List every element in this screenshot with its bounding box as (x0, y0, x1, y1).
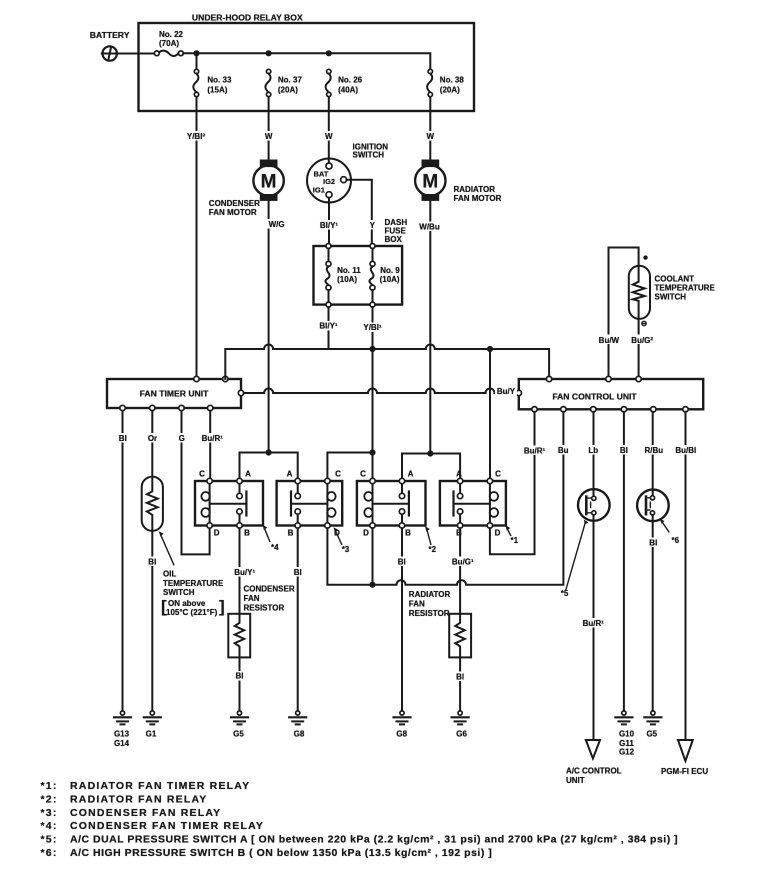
svg-text:(10A): (10A) (380, 275, 400, 284)
wire seg A*2 to A*1 with W/Bu tap (402, 454, 460, 482)
svg-text:W/Bu: W/Bu (419, 223, 440, 232)
svg-text:*6:: *6: (41, 847, 58, 859)
svg-text:A: A (456, 470, 462, 479)
arrow to A/C control unit (566, 740, 622, 785)
wire seg C*3 to Y/Bl1 tap (327, 453, 372, 482)
svg-text:UNIT: UNIT (566, 776, 585, 785)
fan timer unit (107, 376, 244, 410)
svg-text:SWITCH: SWITCH (655, 293, 687, 302)
svg-text:G5: G5 (233, 730, 244, 739)
ignition switch (307, 143, 388, 203)
svg-text:CONDENSER FAN RELAY: CONDENSER FAN RELAY (70, 807, 221, 819)
svg-text:G14: G14 (114, 739, 130, 748)
relay *3 condenser fan relay (277, 470, 350, 555)
svg-text:UNDER-HOOD RELAY BOX: UNDER-HOOD RELAY BOX (192, 13, 303, 23)
wire Bu/Bl fan control unit to PGM-FI ECU (673, 412, 699, 740)
svg-text:(15A): (15A) (207, 86, 227, 95)
wire Bl fan control unit to ground G10 G11 G12 (618, 412, 631, 711)
svg-text:D: D (214, 528, 220, 537)
svg-text:W: W (325, 132, 333, 141)
ground G8 (relay *2) (394, 711, 411, 739)
svg-text:G10: G10 (619, 730, 635, 739)
dash fuse box (314, 218, 408, 305)
wire seg A*4 to A*3 with W/G tap (240, 453, 298, 482)
wire Bu/R1 switch *5 to A/C control unit (580, 515, 607, 740)
ground G1 (144, 711, 161, 739)
wire Bl/Y1 fuse11 to bus1 (315, 307, 342, 349)
svg-text:ON above: ON above (168, 599, 206, 608)
wire Bl condenser resistor to ground G5 (234, 657, 246, 711)
svg-text:*5: *5 (561, 589, 569, 598)
fuse No. 9 (10A) (369, 244, 400, 308)
svg-text:Bl: Bl (649, 538, 657, 547)
wire Bl relay *2 B to ground G8 (396, 528, 409, 711)
svg-text:G12: G12 (619, 748, 635, 757)
svg-text:Bu/Y¹: Bu/Y¹ (234, 568, 255, 577)
svg-text:Bu/Y: Bu/Y (497, 387, 516, 396)
svg-text:RADIATOR FAN RELAY: RADIATOR FAN RELAY (70, 793, 208, 805)
svg-text:No. 37: No. 37 (278, 76, 303, 85)
svg-text:G8: G8 (396, 730, 407, 739)
svg-text:SWITCH: SWITCH (353, 151, 385, 160)
svg-text:A: A (408, 470, 414, 479)
svg-text:RADIATOR FAN TIMER RELAY: RADIATOR FAN TIMER RELAY (70, 780, 250, 792)
svg-text:Bl/Y¹: Bl/Y¹ (319, 322, 338, 331)
fuse No. 26 (40A) (326, 69, 363, 96)
svg-text:RESISTOR: RESISTOR (244, 604, 285, 613)
svg-text:*6: *6 (672, 536, 680, 545)
svg-text:C: C (360, 470, 366, 479)
svg-text:Bu: Bu (558, 446, 569, 455)
ground G10 G11 G12 (615, 711, 634, 757)
ground G13 G14 (114, 711, 131, 748)
svg-text:FAN TIMER UNIT: FAN TIMER UNIT (140, 389, 209, 399)
svg-text:Bl/Y¹: Bl/Y¹ (320, 221, 339, 230)
wire battery to fuse 22 (117, 53, 154, 55)
wire W fuse26 to ignition switch (323, 97, 334, 163)
svg-text:TEMPERATURE: TEMPERATURE (163, 579, 224, 588)
svg-text:FAN MOTOR: FAN MOTOR (454, 194, 502, 203)
svg-text:G6: G6 (456, 730, 467, 739)
wire W/G condenser motor to relay A row (257, 201, 285, 456)
svg-text:(20A): (20A) (440, 86, 460, 95)
svg-text:No. 26: No. 26 (338, 76, 363, 85)
svg-text:[: [ (161, 597, 167, 616)
oil temperature switch (142, 477, 225, 617)
svg-text:IG1: IG1 (313, 186, 325, 195)
ground G5 (condenser resistor) (231, 711, 248, 739)
relay *4 condenser fan timer relay (195, 470, 279, 553)
wire Bu coil feed: relay *3 D and *2 D to fan control unit Bu (327, 412, 570, 588)
svg-text:FAN CONTROL UNIT: FAN CONTROL UNIT (552, 392, 637, 402)
svg-text:No. 22: No. 22 (159, 30, 184, 39)
A/C dual pressure switch A *5 (561, 412, 610, 598)
svg-text:*3:: *3: (41, 807, 58, 819)
svg-text:FAN MOTOR: FAN MOTOR (209, 208, 257, 217)
svg-text:FAN: FAN (409, 600, 425, 609)
wire W fuse38 to radiator fan motor (425, 97, 436, 160)
bus2 wire Bu/Y fan timer unit to fan control unit (244, 387, 517, 397)
svg-text:Bu/R¹: Bu/R¹ (524, 446, 546, 455)
wire relay *2 D drop (372, 528, 374, 585)
svg-text:(10A): (10A) (337, 275, 357, 284)
svg-text:M: M (422, 171, 438, 192)
radiator fan motor (415, 160, 501, 204)
svg-text:Bl: Bl (119, 434, 127, 443)
svg-text:C: C (199, 470, 205, 479)
svg-text:A/C CONTROL: A/C CONTROL (566, 767, 622, 776)
svg-text:TEMPERATURE: TEMPERATURE (655, 284, 716, 293)
svg-text:]: ] (219, 597, 225, 616)
svg-text:Bu/G²: Bu/G² (631, 336, 653, 345)
svg-text:C: C (335, 470, 341, 479)
wire Bu/Y1 relay *4 B to condenser fan resistor (231, 528, 259, 614)
svg-text:PGM-FI ECU: PGM-FI ECU (661, 767, 708, 776)
svg-text:Bu/R¹: Bu/R¹ (583, 619, 605, 628)
condenser fan motor (209, 160, 284, 218)
svg-text:A/C DUAL PRESSURE SWITCH A [ O: A/C DUAL PRESSURE SWITCH A [ ON between … (70, 834, 678, 846)
svg-text:*3: *3 (342, 545, 350, 554)
svg-text:M: M (261, 171, 277, 192)
svg-text:B: B (405, 528, 411, 537)
svg-text:Bu/R¹: Bu/R¹ (202, 434, 224, 443)
ground G6 (radiator resistor) (452, 711, 469, 739)
svg-text:Bl: Bl (456, 673, 464, 682)
svg-text:*5:: *5: (41, 834, 58, 846)
svg-text:No. 38: No. 38 (440, 76, 465, 85)
svg-text:CONDENSER: CONDENSER (244, 585, 295, 594)
svg-text:RESISTOR: RESISTOR (409, 609, 450, 618)
svg-text:(40A): (40A) (338, 86, 358, 95)
wire Bu/G1 relay *1 B to radiator fan resistor (449, 528, 478, 614)
svg-text:A: A (245, 470, 251, 479)
svg-text:BATTERY: BATTERY (90, 30, 130, 40)
svg-text:CONDENSER: CONDENSER (209, 199, 260, 208)
svg-text:W/G: W/G (269, 220, 285, 229)
svg-text:Y/Bl³: Y/Bl³ (187, 132, 206, 141)
svg-text:105°C (221°F): 105°C (221°F) (166, 608, 218, 617)
svg-text:*2:: *2: (41, 793, 58, 805)
svg-text:*4: *4 (271, 543, 279, 552)
radiator fan resistor (409, 590, 471, 657)
svg-text:FAN: FAN (244, 594, 260, 603)
svg-text:G8: G8 (294, 730, 305, 739)
wire Bl radiator resistor to ground G6 (454, 657, 466, 711)
wire W/Bu radiator motor to relay A row (418, 201, 443, 457)
fuse No. 38 (20A) (427, 69, 464, 96)
svg-text:B: B (244, 528, 250, 537)
svg-text:Bl: Bl (236, 672, 244, 681)
svg-text:No. 9: No. 9 (380, 266, 400, 275)
svg-text:Bu/W: Bu/W (599, 336, 620, 345)
svg-text:COOLANT: COOLANT (655, 275, 695, 284)
bus1 wire fan timer unit T2 to fan control unit top (225, 345, 549, 380)
wire Y/Bl1 fuse9 down to relay C row (359, 307, 386, 481)
svg-text:D: D (363, 528, 369, 537)
fuse No. 33 (15A) (193, 53, 232, 96)
svg-text:G1: G1 (146, 730, 157, 739)
svg-text:A/C HIGH PRESSURE SWITCH B ( O: A/C HIGH PRESSURE SWITCH B ( ON below 13… (70, 847, 492, 859)
svg-text:C: C (495, 470, 501, 479)
svg-text:Bl: Bl (148, 558, 156, 567)
wire Bl relay *3 B to ground G8 (292, 528, 305, 711)
svg-text:*4:: *4: (41, 820, 58, 832)
fuse No. 22 (154, 30, 183, 56)
svg-text:Bl: Bl (398, 558, 406, 567)
svg-text:Y/Bl¹: Y/Bl¹ (363, 323, 382, 332)
svg-text:SWITCH: SWITCH (163, 588, 195, 597)
svg-text:Lb: Lb (588, 446, 598, 455)
wire Y/Bl3 fuse33 to fan timer unit (183, 97, 210, 379)
svg-text:Bu/Bl: Bu/Bl (675, 446, 696, 455)
svg-text:Bl: Bl (620, 446, 628, 455)
svg-text:*2: *2 (429, 545, 437, 554)
svg-text:*1:: *1: (41, 780, 58, 792)
wire Bl switch *6 to ground G5 (647, 515, 660, 711)
relay *2 radiator fan relay (357, 470, 437, 555)
svg-text:IG2: IG2 (323, 177, 335, 186)
legend (41, 780, 679, 859)
svg-text:(20A): (20A) (278, 86, 298, 95)
svg-text:CONDENSER FAN TIMER RELAY: CONDENSER FAN TIMER RELAY (70, 820, 264, 832)
svg-text:G5: G5 (646, 730, 657, 739)
wire W fuse37 to condenser fan motor (263, 97, 274, 160)
svg-text:W: W (265, 132, 273, 141)
svg-text:G: G (179, 434, 185, 443)
main feed wire in relay box (183, 50, 430, 69)
fan control unit (516, 376, 703, 412)
wire Bu/R1 fan timer T4 to relay *4 C (199, 411, 226, 481)
ground G8 (relay *3) (289, 711, 306, 739)
svg-text:D: D (495, 528, 501, 537)
svg-text:Or: Or (148, 434, 157, 443)
svg-text:RADIATOR: RADIATOR (454, 185, 496, 194)
relay *1 radiator fan timer relay (440, 470, 519, 546)
wire bus1 drop to relay *1 C (489, 349, 491, 481)
svg-text:Y: Y (370, 221, 376, 230)
svg-text:Bu/G¹: Bu/G¹ (452, 558, 474, 567)
svg-text:(70A): (70A) (159, 39, 179, 48)
svg-text:R/Bu: R/Bu (644, 446, 663, 455)
svg-text:BOX: BOX (385, 235, 403, 244)
wire Bl/Y1 from IG1 to dash fuse box (315, 198, 342, 246)
svg-text:OIL: OIL (163, 570, 176, 579)
svg-text:No. 33: No. 33 (207, 76, 232, 85)
wire Bl fan timer T1 to ground G13 G14 (117, 411, 129, 711)
condenser fan resistor (228, 585, 295, 658)
svg-text:A: A (287, 470, 293, 479)
A/C high pressure switch B *6 (637, 412, 680, 545)
wire Y from IG2 to dash fuse box (347, 180, 377, 246)
ground G5 (switch *6) (644, 711, 661, 739)
fuse No. 37 (20A) (265, 69, 302, 96)
svg-text:RADIATOR: RADIATOR (409, 590, 451, 599)
fuse No. 11 (10A) (325, 244, 361, 308)
svg-text:B: B (288, 528, 294, 537)
under-hood relay box (139, 13, 475, 112)
wire Or fan timer T2 to oil temperature switch (146, 411, 159, 477)
svg-text:G13: G13 (114, 730, 130, 739)
wire Bu/R1 fan control unit T1 to relay *1 D (490, 412, 548, 554)
arrow to PGM-FI ECU (661, 740, 708, 776)
coolant temperature switch (597, 248, 715, 380)
svg-text:*1: *1 (511, 536, 519, 545)
svg-text:Bl: Bl (294, 568, 302, 577)
svg-text:W: W (427, 132, 435, 141)
wire G fan timer T3 to relay *4 D (177, 411, 210, 555)
battery (90, 30, 130, 61)
wire Bl oil switch to ground G1 (146, 531, 159, 711)
svg-text:No. 11: No. 11 (337, 266, 361, 275)
